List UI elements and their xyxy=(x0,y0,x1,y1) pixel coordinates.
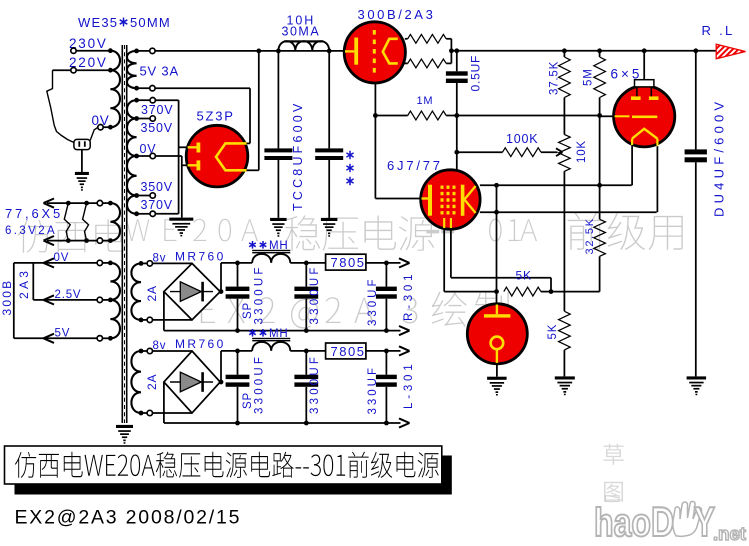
tube 5Z3P V1 xyxy=(186,125,248,187)
svg-text:5V: 5V xyxy=(55,328,71,340)
svg-text:L-301: L-301 xyxy=(403,361,415,409)
ground (divider) xyxy=(555,376,575,395)
label **MH row1 xyxy=(249,240,288,252)
capacitor 3300UF row1 xyxy=(294,263,318,331)
terminal 5V output xyxy=(97,336,102,341)
svg-text:6×5: 6×5 xyxy=(611,67,643,82)
wire 6J7 filament pin down xyxy=(451,229,551,292)
haoDIY.net logo xyxy=(594,496,746,545)
label SP 3300UF row2 xyxy=(242,354,266,414)
watermark row2 gray text EX2@2A3 绘制 xyxy=(201,292,509,329)
capacitor 0.5UF xyxy=(446,51,468,171)
regulator 7805 row2 xyxy=(326,343,366,359)
resistor parallel pair lower xyxy=(404,51,451,68)
capacitor SP3300UF row2 xyxy=(226,351,250,423)
svg-text:2A3: 2A3 xyxy=(17,268,31,299)
resistor 5K horizontal xyxy=(504,287,554,296)
resistor 5K vertical xyxy=(559,311,571,376)
svg-text:SP: SP xyxy=(242,302,254,319)
wire 6J7 lower right pin to 6X5 filament xyxy=(480,210,657,215)
capacitor 330UF row2 xyxy=(376,351,397,423)
wire bridge - riser row2 xyxy=(163,382,165,423)
wire grid 300B down xyxy=(373,83,421,199)
svg-text:6J7/77: 6J7/77 xyxy=(387,158,443,173)
wire regulator to ground xyxy=(496,364,498,377)
resistor 32.5K xyxy=(551,219,605,291)
terminal 8V row2 top xyxy=(147,348,152,353)
wire bridge + riser row2 xyxy=(219,351,224,385)
wire AC bottom row1 xyxy=(152,319,192,321)
wire plug to ground xyxy=(81,150,83,172)
transformer core xyxy=(122,45,126,423)
ground (filter cap 2) xyxy=(321,218,338,237)
tube 6J7/77 V3 xyxy=(421,170,480,229)
svg-text:hao: hao xyxy=(594,501,651,541)
terminal 350V top xyxy=(150,116,155,121)
svg-text:WE35: WE35 xyxy=(78,15,118,30)
wire node down to regulator xyxy=(494,185,499,304)
svg-text:MH: MH xyxy=(269,240,289,252)
terminal 5V3A bottom xyxy=(150,86,155,91)
resistor 37.5K xyxy=(559,51,571,135)
svg-text:DU4UF/600V: DU4UF/600V xyxy=(712,98,727,217)
terminal 220V xyxy=(71,68,76,73)
wire 6.3V top line xyxy=(44,199,111,208)
svg-text:3300UF: 3300UF xyxy=(309,264,321,324)
filter coil **MH row1 xyxy=(252,250,290,263)
wire output rail xyxy=(449,48,716,53)
bridge rectifier MR760 row2 xyxy=(164,351,220,413)
secondary winding 0/2.5/5V xyxy=(108,261,120,341)
svg-text:D: D xyxy=(651,498,674,541)
svg-text:300B: 300B xyxy=(0,279,14,316)
mains plug xyxy=(47,70,98,149)
svg-text:330UF: 330UF xyxy=(367,276,379,326)
ground (filter cap 1) xyxy=(270,218,287,237)
svg-text:R-301: R-301 xyxy=(403,271,415,321)
svg-text:50MM: 50MM xyxy=(130,15,171,30)
svg-text:6.3V2A: 6.3V2A xyxy=(5,225,57,237)
terminal 0V primary xyxy=(98,125,103,130)
svg-text:0V: 0V xyxy=(54,252,70,264)
wire 6.3V bottom line xyxy=(44,236,111,245)
terminal 6.3V top xyxy=(97,200,102,205)
svg-text:5Z3P: 5Z3P xyxy=(197,109,235,124)
title text 仿西电WE20A稳压电源电路--301前级电源 xyxy=(15,452,439,478)
svg-text:37.5K: 37.5K xyxy=(549,61,561,95)
secondary winding 8V row2 xyxy=(131,349,147,416)
terminal 8V row1 top xyxy=(147,261,152,266)
wire AC top row2 xyxy=(152,350,192,352)
secondary winding 6.3V xyxy=(108,201,120,243)
svg-text:350V: 350V xyxy=(141,180,173,194)
svg-text:EX2@2A3 2008/02/15: EX2@2A3 2008/02/15 xyxy=(15,507,242,529)
watermark row1 gray text 仿西电WE20A 稳压电源--01A 前级用 xyxy=(18,213,683,253)
hum balance connector right xyxy=(83,203,89,241)
title box xyxy=(5,446,442,484)
svg-text:5V 3A: 5V 3A xyxy=(140,64,179,79)
wire 5M node down to 32.5K xyxy=(599,116,601,220)
terminal 6.3V bottom xyxy=(97,238,102,243)
svg-text:350V: 350V xyxy=(141,121,173,135)
svg-text:77,6X5: 77,6X5 xyxy=(5,206,63,221)
wire 220V to plug xyxy=(53,69,71,71)
terminal 5V3A top xyxy=(150,48,155,53)
marks *** xyxy=(346,151,353,185)
svg-text:MR760: MR760 xyxy=(175,250,226,264)
terminal 350V bottom xyxy=(150,193,155,198)
secondary winding 8V row1 xyxy=(131,261,147,322)
capacitor TCC 8UF/600V no.1 xyxy=(264,51,292,218)
resistor 10K xyxy=(559,135,571,312)
ground (transformer core) xyxy=(116,425,133,444)
wire 0V to primary xyxy=(103,125,113,130)
svg-text:370V: 370V xyxy=(141,198,173,212)
choke 10H 30MA xyxy=(278,40,329,51)
svg-text:TCC8UF600V: TCC8UF600V xyxy=(291,101,305,212)
wire 6J7 top right pin to 6X5 filament xyxy=(480,183,632,188)
ground (regulator) xyxy=(487,377,507,396)
svg-text:MH: MH xyxy=(269,328,289,340)
primary winding xyxy=(110,51,120,128)
resistor 100K xyxy=(454,148,562,157)
wire 0V rail row2 xyxy=(164,418,410,427)
resistor parallel pair upper xyxy=(405,34,452,50)
wire +8V rail row2 xyxy=(221,349,326,354)
svg-text:3300UF: 3300UF xyxy=(309,354,321,414)
wire 6J7 cathode left pin down xyxy=(444,229,496,292)
svg-text:5K: 5K xyxy=(547,324,559,340)
terminal 0V HT xyxy=(150,153,155,158)
svg-text:30MA: 30MA xyxy=(282,25,321,39)
terminal 0V output xyxy=(97,260,102,265)
resistor 1M xyxy=(375,111,602,120)
label **MH row2 xyxy=(249,328,288,340)
wire 220V to primary xyxy=(76,68,113,73)
svg-text:3300UF: 3300UF xyxy=(254,264,266,324)
tube 6X5 V4 xyxy=(614,86,675,147)
terminal 8V row2 bottom xyxy=(147,410,152,415)
ground (mains plug) xyxy=(75,172,89,191)
wire +8V rail row1 xyxy=(221,261,326,266)
svg-text:370V: 370V xyxy=(141,103,173,117)
wire 7805 output row2 xyxy=(366,346,410,355)
regulator tube V5 xyxy=(467,304,527,364)
wire 0V tap to ground and cathode xyxy=(155,156,187,218)
svg-text:3300UF: 3300UF xyxy=(254,354,266,414)
svg-text:0.5UF: 0.5UF xyxy=(469,55,483,92)
regulator 7805 row1 xyxy=(326,254,366,270)
terminal 2.5V output xyxy=(97,297,102,302)
secondary winding 5V3A xyxy=(127,49,150,91)
resistor 5M xyxy=(594,51,606,116)
hum balance connector left xyxy=(64,203,70,241)
svg-text:MR760: MR760 xyxy=(175,337,226,351)
wire 230V to primary xyxy=(76,48,113,53)
svg-text:2.5V: 2.5V xyxy=(55,289,82,301)
wire 2.5V output line xyxy=(44,295,111,304)
bracket 300B xyxy=(14,263,47,338)
capacitor DU 4UF/600V xyxy=(685,51,707,377)
wire 6X5 filament legs xyxy=(632,146,657,212)
wire AC bottom row2 xyxy=(152,412,192,414)
svg-text:2A: 2A xyxy=(145,285,159,301)
terminal 230V xyxy=(71,48,76,53)
svg-text:330UF: 330UF xyxy=(367,365,379,415)
svg-text:10K: 10K xyxy=(576,140,588,163)
wire bridge - riser row1 xyxy=(163,292,165,331)
filter coil **MH row2 xyxy=(252,338,290,351)
capacitor TCC 8UF/600V no.2 xyxy=(315,51,343,218)
wire AC top row1 xyxy=(152,262,192,264)
svg-text:32.5K: 32.5K xyxy=(584,217,596,254)
capacitor 330UF row1 xyxy=(376,263,397,331)
bridge rectifier MR760 row1 xyxy=(164,263,220,320)
svg-text:7805: 7805 xyxy=(331,344,366,359)
transformer T1 label WE35*50MM xyxy=(78,15,171,30)
wire 370V taps to 5Z3P plate xyxy=(155,100,187,214)
svg-text:300B/2A3: 300B/2A3 xyxy=(358,7,436,22)
wire bridge + riser row1 xyxy=(219,263,224,294)
svg-text:5M: 5M xyxy=(583,68,595,86)
terminal 370V top xyxy=(150,98,155,103)
svg-text:2A: 2A xyxy=(145,374,159,390)
svg-text:R .L: R .L xyxy=(702,23,735,38)
svg-text:100K: 100K xyxy=(506,132,538,146)
wire 5V3A bottom to 5Z3P filament xyxy=(155,88,250,143)
terminal 370V bottom xyxy=(150,211,155,216)
wire 7805 output row1 xyxy=(366,258,410,267)
capacitor 3300UF row2 xyxy=(294,351,318,423)
wire 0V output line xyxy=(44,258,111,267)
wire 0V rail row1 xyxy=(164,326,410,335)
wire 5Z3P filament to B+ xyxy=(247,51,259,170)
wire B+ line from 5V winding to 300B plate xyxy=(155,49,344,54)
wire 6X5 cathode xyxy=(600,115,614,117)
watermark vertical 草图 xyxy=(603,444,624,502)
title box shadow xyxy=(15,456,452,495)
svg-text:5K: 5K xyxy=(516,269,532,283)
ground (output cap) xyxy=(687,376,707,395)
label SP 3300UF row1 xyxy=(242,264,266,324)
capacitor SP3300UF row1 xyxy=(226,263,250,331)
bracket 2A3 xyxy=(33,263,47,300)
wire 5V output line xyxy=(44,334,111,343)
tube 300B/2A3 V2 xyxy=(344,22,405,83)
terminal 8V row1 bottom xyxy=(147,317,152,322)
svg-text:7805: 7805 xyxy=(331,255,366,270)
svg-text:1M: 1M xyxy=(417,95,434,107)
secondary HT winding 370/350/0/350/370 xyxy=(127,98,150,216)
output arrow R.L xyxy=(716,44,745,59)
ground (HT centre tap) xyxy=(169,218,193,237)
svg-text:.net: .net xyxy=(713,524,746,541)
svg-text:SP: SP xyxy=(242,392,254,409)
svg-text:Y: Y xyxy=(694,498,715,541)
6X5 plate cap connector xyxy=(635,51,654,97)
